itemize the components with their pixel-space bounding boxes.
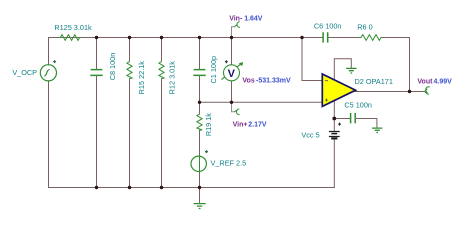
svg-text:R12 3.01k: R12 3.01k [168,61,177,95]
svg-text:C1 100p: C1 100p [209,56,218,84]
junction C8/top rail [95,36,98,39]
probe hook Vin+ [235,109,240,115]
svg-text:D2 OPA171: D2 OPA171 [354,77,392,86]
junction R15/bottom rail [128,186,131,189]
svg-text:-531.33mV: -531.33mV [256,78,291,85]
op-amp plus mark [325,99,328,102]
wire ground stem below bottom rail [199,188,201,203]
wire op-amp V- pin to ground [334,59,351,80]
ground op-amp V- [346,68,356,73]
wire bottom rail [49,187,335,189]
capacitor C5 100n [351,113,356,123]
wire V+ node to C5 [334,118,350,120]
battery Vcc 5 [329,123,341,139]
voltmeter circle [224,65,240,81]
wire non-inverting row [200,101,323,103]
svg-text:Vcc 5: Vcc 5 [301,131,319,140]
junction R15/top rail [128,36,131,39]
junction voltmeter/top rail [230,36,233,39]
svg-text:C8 100n: C8 100n [108,53,117,81]
junction C8/bottom rail [95,186,98,189]
wire C8 column [96,38,98,188]
wire op-amp V+ pin [333,101,335,119]
svg-text:4.99V: 4.99V [434,79,453,86]
source V_REF plus [205,150,208,153]
op-amp minus mark [325,80,328,82]
voltmeter plus [225,60,228,63]
svg-text:Vout: Vout [417,79,433,86]
wire Vin- probe stub [232,27,235,38]
voltmeter arrow [222,64,241,80]
wire R12 column [161,38,163,188]
wire R6 to corner [381,37,410,39]
resistor R6 0 [361,35,381,41]
wire feedback drop to output [409,38,411,92]
svg-text:C6 100n: C6 100n [314,22,342,31]
junction R12/bottom rail [160,186,163,189]
junction V+ supply node [332,117,336,121]
svg-text:R125 3.01k: R125 3.01k [54,23,92,32]
wire voltmeter column [231,38,233,103]
junction output node [408,90,411,93]
svg-text:2.17V: 2.17V [248,121,267,128]
resistor R15 22.1k [127,62,132,79]
ground C5 [372,128,382,132]
wire C5 to ground [356,119,377,128]
resistor R125 3.01k [59,35,82,41]
resistor R19 1k [197,114,202,130]
resistor R12 3.01k [159,62,164,79]
svg-text:R15 22.1k: R15 22.1k [137,61,146,95]
svg-text:1.64V: 1.64V [244,15,263,22]
ground main (V_REF) [194,204,206,209]
capacitor C1 100p [193,70,205,76]
junction C1/top rail [198,36,201,39]
svg-text:R19 1k: R19 1k [204,113,213,136]
source V_REF 2.5 [191,156,206,171]
svg-text:Vos: Vos [242,78,254,85]
junction C1/non-inverting row [198,101,201,104]
op-amp U1 OPA171 [322,74,355,106]
junction voltmeter/non-inverting row [230,101,233,104]
wire top rail [49,37,303,39]
wire R15 column [129,38,131,188]
svg-text:R6 0: R6 0 [357,22,372,31]
source V_OCP plus [53,60,56,63]
probe hook Vin- [235,22,240,28]
source V_OCP [40,65,56,81]
svg-text:C5 100n: C5 100n [344,101,372,110]
capacitor C6 100n [323,32,328,42]
wire battery to bottom rail [333,119,335,188]
wire output row [354,91,425,93]
svg-text:Vin+: Vin+ [233,121,248,128]
wire C1 / R19 / V_REF column [199,38,201,188]
junction R12/top rail [160,36,163,39]
junction V_REF/bottom rail [198,186,201,189]
svg-text:V_REF 2.5: V_REF 2.5 [211,158,247,167]
junction feedback/top rail [300,36,303,39]
svg-text:V_OCP: V_OCP [12,68,37,77]
svg-text:V: V [228,68,236,80]
wire V_OCP column [48,38,50,188]
wire feedback to C6 [302,37,323,39]
wire C6 to R6 [328,37,361,39]
wire Vin+ probe stub [232,102,235,112]
probe hook Vout [425,87,430,94]
wire inverting input drop [302,38,322,81]
capacitor C8 100n [90,70,102,76]
svg-text:Vin-: Vin- [229,15,243,22]
